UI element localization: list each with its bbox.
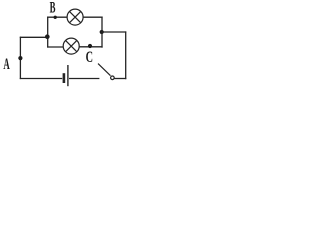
wire: left rail (down to bottom rail) bbox=[19, 37, 21, 79]
wire: bottom rail, switch to right rail bbox=[115, 78, 127, 80]
wire: top branch, left segment bbox=[47, 16, 67, 18]
wire: left branch stub (junction to left rail) bbox=[20, 36, 48, 38]
wire: bottom rail, node A side to battery bbox=[20, 78, 62, 80]
wire: inner left rail (top branch down to middle branch) bbox=[47, 17, 49, 48]
battery cell: long thin positive plate bbox=[67, 65, 69, 86]
wire: top-right connector (junction to right rail) bbox=[101, 31, 126, 33]
switch C (open): lever blade bbox=[98, 64, 111, 76]
lamp (top branch): bulb circle with cross bbox=[67, 9, 83, 25]
wire: middle branch, right segment bbox=[79, 46, 102, 48]
switch C (open): pivot terminal circle bbox=[111, 76, 115, 80]
wire: top branch, right segment bbox=[83, 16, 102, 18]
wire: middle branch, left segment bbox=[47, 46, 63, 48]
svg-text:A: A bbox=[3, 54, 10, 73]
node A (junction dot) bbox=[18, 56, 22, 60]
node C (dot) bbox=[88, 44, 92, 48]
node B (dot) bbox=[54, 16, 57, 19]
junction dot (left, parallel branches split) bbox=[45, 34, 50, 39]
battery cell: short thick negative plate bbox=[63, 73, 66, 83]
wire: inner right rail (top branch down to middle branch) bbox=[101, 17, 103, 48]
wire: bottom rail, battery to switch bbox=[69, 78, 99, 80]
wire: right rail bbox=[125, 31, 127, 79]
lamp (middle branch): bulb circle with cross bbox=[63, 38, 79, 54]
svg-text:C: C bbox=[86, 48, 93, 66]
junction dot (right, parallel branches meet) bbox=[100, 30, 104, 34]
svg-text:B: B bbox=[50, 0, 56, 16]
